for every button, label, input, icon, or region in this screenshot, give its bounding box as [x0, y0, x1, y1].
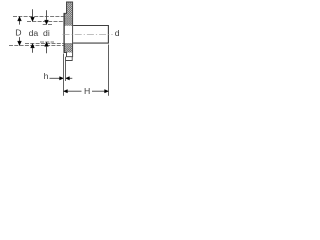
dim H line right segment [92, 90, 106, 92]
dim da top extent dashed [27, 21, 64, 23]
flange plate and raised ring outline [64, 2, 73, 57]
dim di top arrow down [45, 20, 49, 24]
flange section hatch bottom band [64, 43, 73, 53]
dim D line segments [19, 17, 21, 25]
flange raised-ring left face thick line [63, 13, 65, 52]
dim D top extent dashed [13, 16, 64, 18]
svg-text:D: D [15, 28, 21, 38]
dim da top arrow down [31, 17, 35, 21]
dim h left line [50, 77, 61, 79]
dim da bottom arrow up [31, 44, 35, 48]
dim H left arrow [64, 89, 68, 93]
dim di top extent dashed [43, 24, 53, 26]
weld collar box below flange [66, 57, 73, 61]
dim h left arrow right [60, 77, 64, 81]
svg-text:d: d [115, 28, 120, 38]
dim da top shaft [32, 9, 34, 17]
flange section hatch top band [64, 2, 73, 26]
dim da bottom shaft [32, 48, 34, 53]
dim di bottom extent dashed [40, 41, 54, 43]
dim di top shaft [46, 10, 48, 20]
svg-text:h: h [44, 71, 49, 81]
dim h right arrow left [66, 77, 70, 81]
dim h right line [70, 77, 73, 79]
H right extension line [108, 45, 110, 96]
tube socket outline [73, 26, 108, 44]
dim H right arrow [105, 89, 109, 93]
h right extension line [65, 61, 67, 82]
svg-text:H: H [84, 86, 90, 96]
dim H line left segment [67, 90, 82, 92]
dim di bottom shaft [46, 47, 48, 54]
dim da bottom extent dashed [25, 43, 64, 45]
centerline [63, 33, 113, 35]
dim di bottom arrow up [45, 42, 49, 46]
dim D bottom extent dashed [9, 45, 64, 47]
svg-text:di: di [43, 28, 50, 38]
H left extension line [63, 54, 65, 96]
dim D arrow down [18, 41, 22, 45]
dim D arrow up [18, 17, 22, 21]
svg-text:da: da [29, 28, 39, 38]
